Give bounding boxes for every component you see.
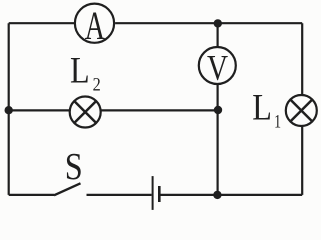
svg-text:2: 2 [93,74,101,95]
svg-text:A: A [85,4,105,48]
wire top-middle segment [115,22,302,24]
wire bottom-left segment [9,194,55,196]
wire top-left segment [9,22,74,24]
wire battery to switch [87,194,152,196]
junction node middle [214,106,222,114]
junction node bottom [213,191,221,199]
wire middle-left segment [9,109,69,111]
wire right border lower [301,127,303,195]
svg-text:L: L [70,50,90,91]
svg-text:S: S [65,146,83,188]
junction node left [5,106,13,114]
wire branch below voltmeter [217,85,219,195]
wire right border upper [301,23,303,94]
ammeter A [75,4,114,43]
battery B1 [153,176,160,210]
label L2 [70,50,101,95]
lamp L2 [70,97,101,128]
wire middle-right segment [102,109,219,111]
svg-text:V: V [207,49,228,89]
lamp L1 [286,95,317,126]
wire bottom-right segment [160,194,302,196]
junction node top [214,19,222,27]
wire branch above voltmeter [217,23,219,46]
svg-text:1: 1 [274,110,281,131]
svg-text:L: L [252,87,272,128]
label L1 [252,87,281,131]
switch S [54,183,81,195]
voltmeter V [199,47,236,84]
wire left border [8,23,10,195]
